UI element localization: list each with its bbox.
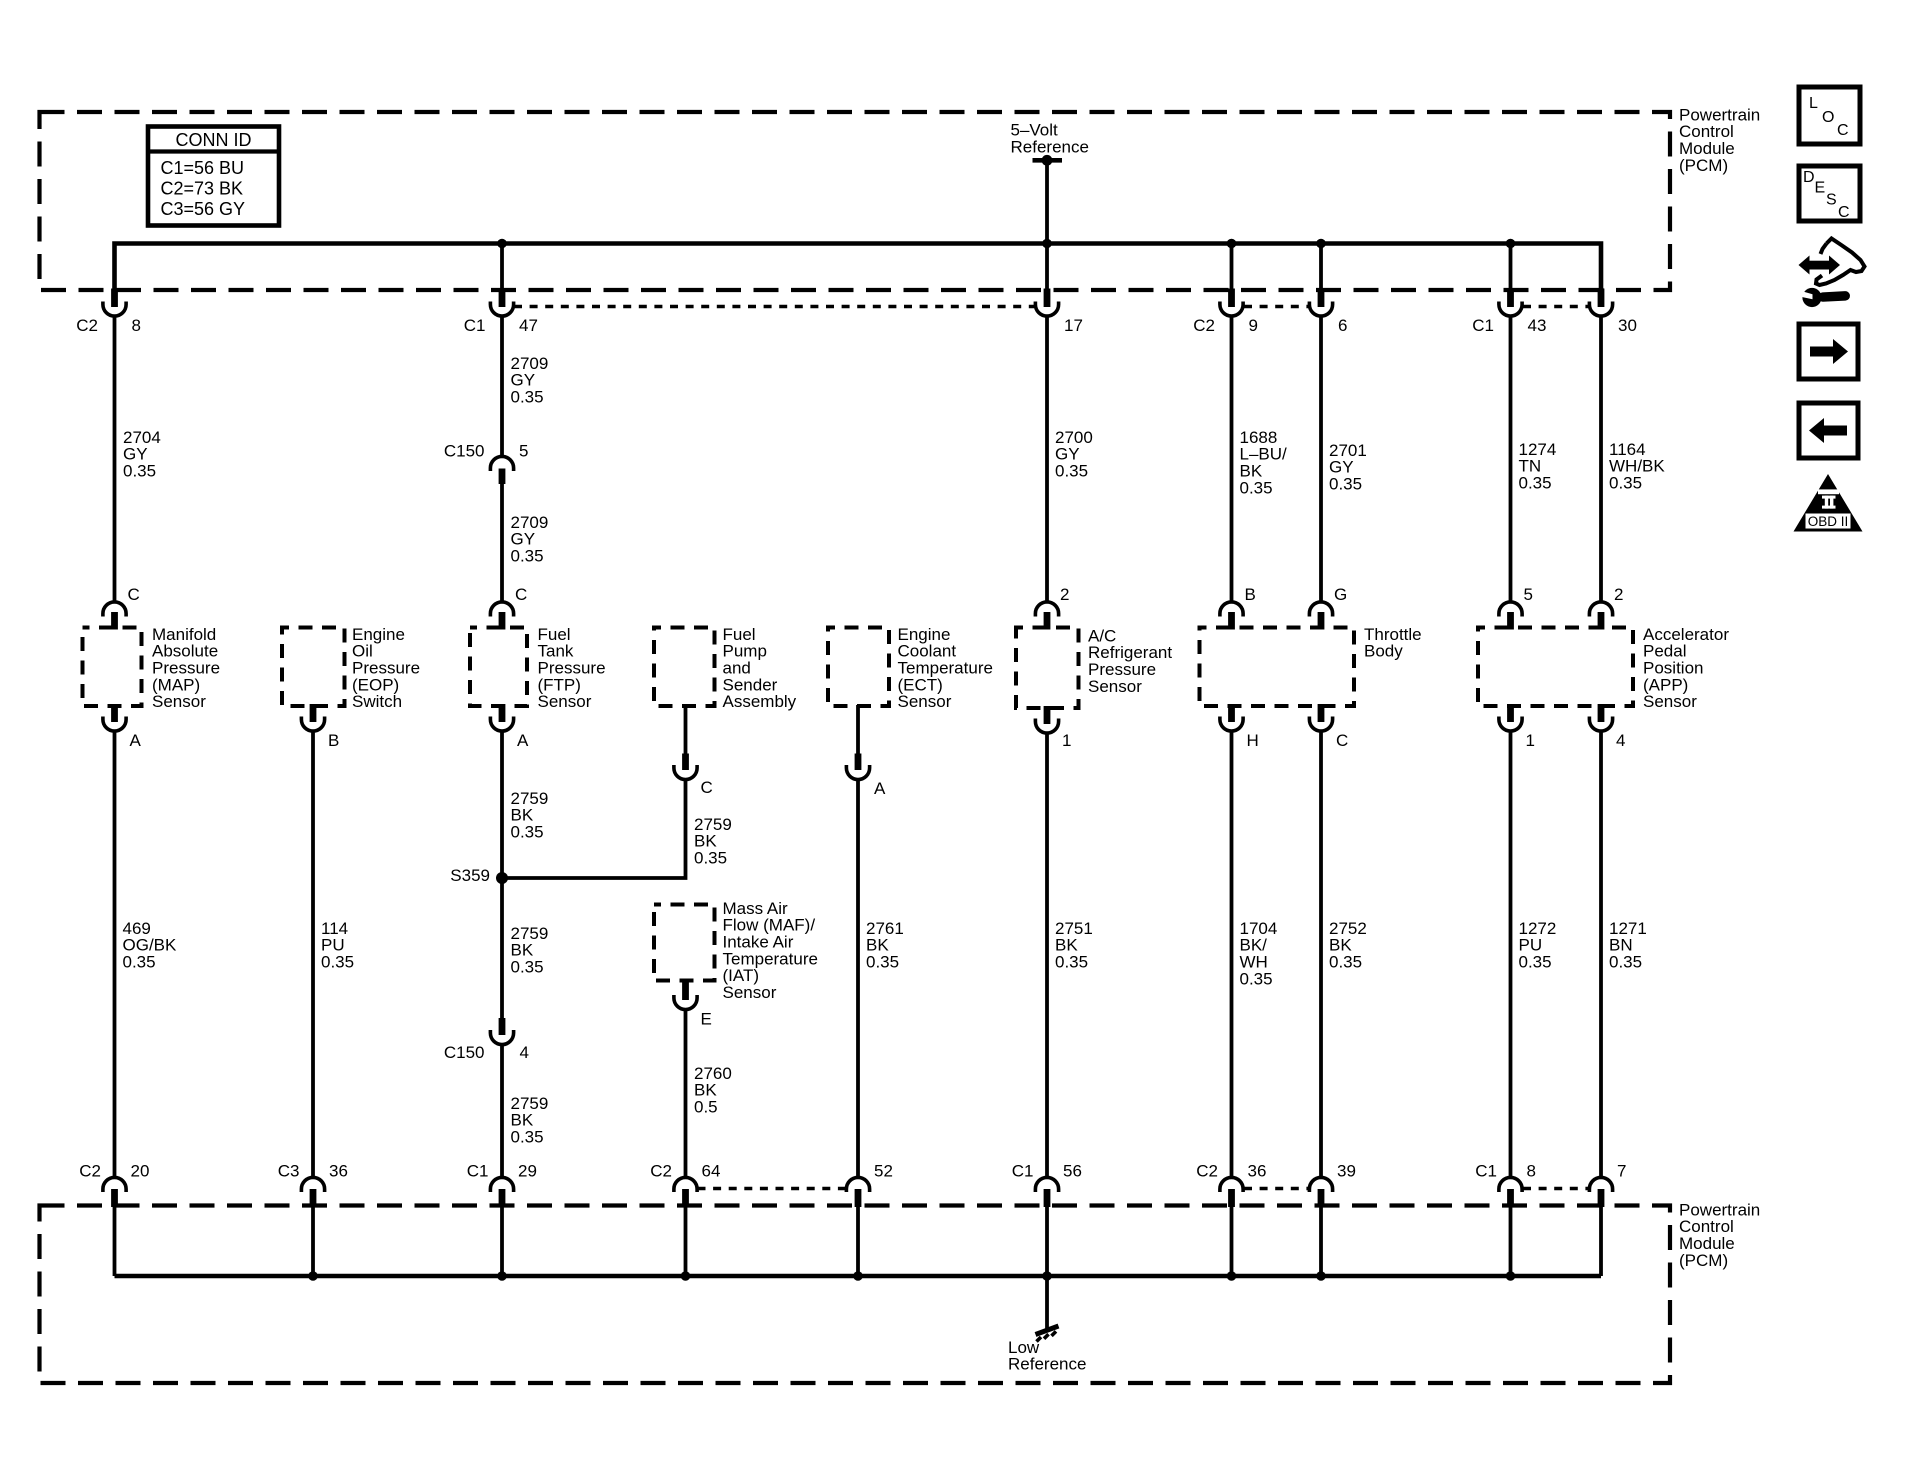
svg-text:2: 2 — [1614, 585, 1623, 604]
svg-text:0.5: 0.5 — [694, 1098, 718, 1117]
Throttle body box — [1200, 628, 1355, 707]
junction dot bottom bus x=1510.5 — [1506, 1271, 1516, 1281]
sensor bottom connector pin 1 x=1047 — [1044, 706, 1051, 724]
svg-text:0.35: 0.35 — [694, 849, 727, 868]
connector pin 64 (C2) at PCM bottom — [674, 1177, 697, 1192]
svg-text:C2: C2 — [1196, 1161, 1218, 1180]
AC refrigerant pressure sensor box — [1016, 628, 1079, 709]
wire pin 8 to bottom bus — [1509, 1206, 1513, 1277]
connector pin 56 (C1) at PCM bottom — [1035, 1177, 1058, 1192]
connector ECT pin A — [855, 754, 862, 771]
svg-text:0.35: 0.35 — [511, 958, 544, 977]
sensor bottom connector pin B x=313 — [310, 704, 317, 722]
wire pin 39 to bottom bus — [1319, 1206, 1323, 1277]
svg-text:0.35: 0.35 — [1055, 953, 1088, 972]
svg-text:C2: C2 — [650, 1161, 672, 1180]
connector pin 20 (C2) at PCM bottom — [103, 1177, 126, 1192]
splice S359 — [496, 872, 508, 884]
dotted housing line C2 9-6 — [1244, 305, 1309, 309]
svg-text:CONN ID: CONN ID — [176, 130, 252, 150]
dotted housing line C2 64-52 — [698, 1187, 846, 1191]
Fuel pump assembly box — [654, 628, 715, 707]
svg-text:OBD II: OBD II — [1808, 514, 1849, 529]
svg-text:Sensor: Sensor — [152, 692, 206, 711]
svg-text:47: 47 — [519, 316, 538, 335]
svg-text:S359: S359 — [450, 866, 490, 885]
svg-text:C: C — [515, 585, 527, 604]
junction dot bottom bus x=1321 — [1316, 1271, 1326, 1281]
svg-text:E: E — [1815, 180, 1826, 197]
svg-text:C1: C1 — [1475, 1161, 1497, 1180]
svg-text:0.35: 0.35 — [123, 462, 156, 481]
svg-text:(PCM): (PCM) — [1679, 156, 1728, 175]
wire pin 36 to bottom bus — [1230, 1206, 1234, 1277]
svg-text:C2=73 BK: C2=73 BK — [161, 179, 244, 199]
5-Volt Reference terminal bar — [1033, 158, 1063, 163]
wire pin 29 to bottom bus — [500, 1206, 504, 1277]
svg-text:8: 8 — [132, 316, 141, 335]
wire 2709 GY (C150-5 to FTP C) — [500, 484, 504, 603]
icon LOC box — [1799, 87, 1860, 144]
connector pin 6 at PCM top — [1318, 289, 1325, 308]
svg-text:C3=56 GY: C3=56 GY — [161, 199, 246, 219]
sensor top connector pin 5 x=1510.5 — [1499, 602, 1522, 617]
svg-text:Body: Body — [1364, 642, 1403, 661]
junction dot bottom bus x=685.5 — [681, 1271, 691, 1281]
APP sensor box — [1478, 628, 1633, 707]
svg-text:Reference: Reference — [1011, 137, 1089, 156]
sensor top connector pin 2 x=1047 — [1035, 602, 1058, 617]
svg-text:S: S — [1826, 192, 1837, 209]
inline connector C150 pin 5 — [490, 456, 513, 471]
wire 2700 GY (pin 17 to AC sensor 2) — [1045, 316, 1049, 603]
svg-text:C3: C3 — [278, 1161, 300, 1180]
wire ECT A drop — [856, 705, 860, 754]
svg-text:0.35: 0.35 — [511, 823, 544, 842]
junction dot bottom bus x=313 — [308, 1271, 318, 1281]
svg-text:O: O — [1822, 109, 1834, 126]
connector pin 30 at PCM top — [1598, 289, 1605, 308]
svg-text:B: B — [1245, 585, 1256, 604]
dotted housing line C1 8-7 — [1523, 1187, 1589, 1191]
connector MAF pin E — [682, 979, 689, 1000]
wire 114 PU (EOP B to pin 36) — [311, 731, 315, 1179]
svg-text:Assembly: Assembly — [723, 692, 797, 711]
icon hand with double arrow and wrench — [1799, 256, 1841, 275]
svg-text:A: A — [517, 731, 529, 750]
wire pin 56 to bottom bus — [1045, 1206, 1049, 1277]
sensor bottom connector pin A x=502 — [499, 704, 506, 722]
sensor bottom connector pin 4 x=1601 — [1598, 704, 1605, 722]
svg-text:39: 39 — [1337, 1161, 1356, 1180]
wire 1274 TN (pin 43 to APP 5) — [1509, 316, 1513, 603]
svg-text:5: 5 — [519, 441, 528, 460]
PCM bottom module dashed outline — [40, 1206, 1671, 1384]
connector pin 52 at PCM bottom — [846, 1177, 869, 1192]
connector pin 36 (C2) at PCM bottom — [1220, 1177, 1243, 1192]
connector pin 17 at PCM top — [1044, 289, 1051, 308]
svg-text:29: 29 — [518, 1161, 537, 1180]
svg-text:0.35: 0.35 — [511, 388, 544, 407]
wire 2760 BK (MAF E to pin 64) — [684, 1009, 688, 1178]
wire bus to PCM border x=1510.5 — [1509, 244, 1513, 291]
svg-text:Reference: Reference — [1008, 1355, 1086, 1374]
svg-text:20: 20 — [131, 1161, 150, 1180]
wire 1271 BN (APP 4 to pin 7) — [1599, 731, 1603, 1179]
MAP sensor box — [83, 628, 142, 707]
wire bus to PCM border x=1321 — [1319, 244, 1323, 291]
wire pin 64 to bottom bus — [684, 1206, 688, 1277]
svg-text:0.35: 0.35 — [1329, 475, 1362, 494]
svg-text:0.35: 0.35 — [1329, 953, 1362, 972]
wire 1688 L-BU/BK (pin 9 to TB B) — [1230, 316, 1234, 603]
connector pin 29 (C1) at PCM bottom — [490, 1177, 513, 1192]
svg-text:Sensor: Sensor — [723, 983, 777, 1002]
svg-text:0.35: 0.35 — [1609, 474, 1642, 493]
svg-text:6: 6 — [1338, 316, 1347, 335]
FTP sensor box — [470, 628, 527, 707]
wire bus to PCM border x=502 — [500, 244, 504, 291]
junction dot top bus x=1231.5 — [1227, 239, 1237, 249]
svg-text:0.35: 0.35 — [1240, 478, 1273, 497]
dotted housing line C1 47-17 — [514, 305, 1035, 309]
wire 2759 BK (S359 to C150-4) — [500, 878, 504, 1019]
EOP switch box — [282, 628, 345, 707]
junction dot top bus x=502 — [497, 239, 507, 249]
svg-text:0.35: 0.35 — [123, 953, 156, 972]
svg-text:0.35: 0.35 — [866, 953, 899, 972]
sensor bottom connector pin H x=1231.5 — [1228, 704, 1235, 722]
svg-text:(PCM): (PCM) — [1679, 1251, 1728, 1270]
svg-text:C150: C150 — [444, 1043, 485, 1062]
svg-text:52: 52 — [874, 1161, 893, 1180]
junction dot top bus x=1321 — [1316, 239, 1326, 249]
svg-text:B: B — [328, 731, 339, 750]
icon OBD II triangle — [1794, 474, 1863, 532]
svg-text:Sensor: Sensor — [898, 692, 952, 711]
sensor top connector pin C x=502 — [490, 602, 513, 617]
connector pin 8 (C1) at PCM bottom — [1499, 1177, 1522, 1192]
connector pin 47 (C1) at PCM top — [499, 289, 506, 308]
svg-text:Sensor: Sensor — [538, 692, 592, 711]
top bus wire (5V reference rail) — [115, 244, 1602, 291]
svg-text:Switch: Switch — [352, 692, 402, 711]
svg-text:L: L — [1809, 95, 1818, 112]
svg-text:2: 2 — [1060, 585, 1069, 604]
svg-text:C1: C1 — [1472, 316, 1494, 335]
svg-text:C150: C150 — [444, 441, 485, 460]
svg-text:A: A — [874, 779, 886, 798]
svg-text:D: D — [1803, 169, 1815, 186]
wire 2701 GY (pin 6 to TB G) — [1319, 316, 1323, 603]
svg-text:56: 56 — [1063, 1161, 1082, 1180]
svg-text:C1: C1 — [1012, 1161, 1034, 1180]
wire 2759 BK (C150-4 to pin 29) — [500, 1044, 504, 1178]
CONN ID table — [148, 127, 279, 226]
svg-text:C1: C1 — [467, 1161, 489, 1180]
icon back arrow box — [1799, 403, 1858, 458]
junction dot bottom bus x=858 — [853, 1271, 863, 1281]
wire 2704 GY (pin 8 to MAP C) — [113, 316, 117, 603]
svg-text:Sensor: Sensor — [1643, 692, 1697, 711]
svg-text:Sensor: Sensor — [1088, 677, 1142, 696]
svg-text:9: 9 — [1249, 316, 1258, 335]
svg-text:G: G — [1334, 585, 1347, 604]
connector pin 8 (C2) at PCM top — [111, 289, 118, 308]
wire pin 20 to bottom bus — [113, 1206, 117, 1277]
wire 2752 BK (TB C to pin 39) — [1319, 731, 1323, 1179]
wire 2759 BK (pump C to S359) — [502, 779, 686, 878]
junction dot bottom bus x=1047 — [1042, 1271, 1052, 1281]
svg-text:17: 17 — [1064, 316, 1083, 335]
svg-text:4: 4 — [520, 1043, 529, 1062]
sensor bottom connector pin 1 x=1510.5 — [1507, 704, 1514, 722]
svg-text:1: 1 — [1526, 731, 1535, 750]
connector pin 7 at PCM bottom — [1589, 1177, 1612, 1192]
svg-text:C: C — [1837, 122, 1849, 139]
wire fuel pump C drop — [684, 705, 688, 754]
svg-text:0.35: 0.35 — [511, 1128, 544, 1147]
svg-text:64: 64 — [702, 1161, 721, 1180]
svg-text:5: 5 — [1524, 585, 1533, 604]
wire 5-Volt Reference to bus — [1045, 160, 1049, 243]
svg-text:C2: C2 — [76, 316, 98, 335]
icon DESC box — [1799, 166, 1860, 221]
svg-text:36: 36 — [329, 1161, 348, 1180]
svg-text:E: E — [701, 1009, 712, 1028]
junction dot top bus x=1510.5 — [1506, 239, 1516, 249]
wire pin 7 to bottom bus — [1599, 1206, 1603, 1277]
connector fuel pump pin C — [682, 754, 689, 771]
svg-text:0.35: 0.35 — [511, 547, 544, 566]
wire 1272 PU (APP 1 to pin 8) — [1509, 731, 1513, 1179]
svg-text:4: 4 — [1616, 731, 1625, 750]
wire bus to PCM border x=1047 — [1045, 244, 1049, 291]
wire 2751 BK (AC 1 to pin 56) — [1045, 733, 1049, 1179]
svg-text:0.35: 0.35 — [1609, 953, 1642, 972]
svg-text:1: 1 — [1062, 731, 1071, 750]
svg-text:A: A — [130, 731, 142, 750]
MAF/IAT sensor box — [654, 905, 715, 981]
sensor top connector pin G x=1321 — [1309, 602, 1332, 617]
svg-text:C1=56 BU: C1=56 BU — [161, 158, 245, 178]
svg-text:7: 7 — [1617, 1161, 1626, 1180]
sensor bottom connector pin A x=114.5 — [111, 704, 118, 722]
svg-text:C: C — [1838, 204, 1850, 221]
bottom bus wire (low reference rail) — [115, 1274, 1602, 1279]
sensor top connector pin C x=114.5 — [103, 602, 126, 617]
svg-text:36: 36 — [1248, 1161, 1267, 1180]
junction dot top bus x=1047 — [1042, 239, 1052, 249]
svg-text:C2: C2 — [1193, 316, 1215, 335]
svg-text:0.35: 0.35 — [1055, 462, 1088, 481]
wire 2761 BK (ECT A to pin 52) — [856, 779, 860, 1178]
svg-text:30: 30 — [1618, 316, 1637, 335]
PCM top module dashed outline — [40, 112, 1671, 290]
wire 2709 GY (pin 47 to C150-5) — [500, 316, 504, 457]
wire pin 36 to bottom bus — [311, 1206, 315, 1277]
wire bus to low reference ground — [1045, 1276, 1049, 1329]
dotted housing line C1 43-30 — [1523, 305, 1589, 309]
icon forward arrow box — [1799, 324, 1858, 379]
junction dot bottom bus x=1231.5 — [1227, 1271, 1237, 1281]
svg-text:C2: C2 — [79, 1161, 101, 1180]
svg-text:0.35: 0.35 — [1519, 474, 1552, 493]
svg-text:C: C — [701, 778, 713, 797]
svg-text:0.35: 0.35 — [1240, 969, 1273, 988]
svg-text:0.35: 0.35 — [321, 953, 354, 972]
wire 469 OG/BK (MAP A to pin 20) — [113, 731, 117, 1179]
wire 2759 BK (FTP A to S359) — [500, 731, 504, 879]
sensor top connector pin B x=1231.5 — [1220, 602, 1243, 617]
wire pin 52 to bottom bus — [856, 1206, 860, 1277]
sensor bottom connector pin C x=1321 — [1318, 704, 1325, 722]
connector pin 9 (C2) at PCM top — [1228, 289, 1235, 308]
connector pin 39 at PCM bottom — [1309, 1177, 1332, 1192]
dotted housing line C2 36-39 — [1244, 1187, 1309, 1191]
sensor top connector pin 2 x=1601 — [1589, 602, 1612, 617]
low reference ground symbol — [1036, 1326, 1059, 1342]
svg-text:C1: C1 — [464, 316, 486, 335]
svg-text:43: 43 — [1528, 316, 1547, 335]
wire bus to PCM border x=1231.5 — [1230, 244, 1234, 291]
connector pin 36 (C3) at PCM bottom — [301, 1177, 324, 1192]
svg-text:0.35: 0.35 — [1519, 953, 1552, 972]
junction dot bottom bus x=502 — [497, 1271, 507, 1281]
wire 1164 WH/BK (pin 30 to APP 2) — [1599, 316, 1603, 603]
svg-text:C: C — [128, 585, 140, 604]
svg-text:C: C — [1336, 731, 1348, 750]
ECT sensor box — [828, 628, 889, 707]
svg-text:8: 8 — [1527, 1161, 1536, 1180]
wire 1704 BK/WH (TB H to pin 36) — [1230, 731, 1234, 1179]
inline connector C150 pin 4 — [499, 1018, 506, 1035]
svg-text:H: H — [1247, 731, 1259, 750]
connector pin 43 (C1) at PCM top — [1507, 289, 1514, 308]
